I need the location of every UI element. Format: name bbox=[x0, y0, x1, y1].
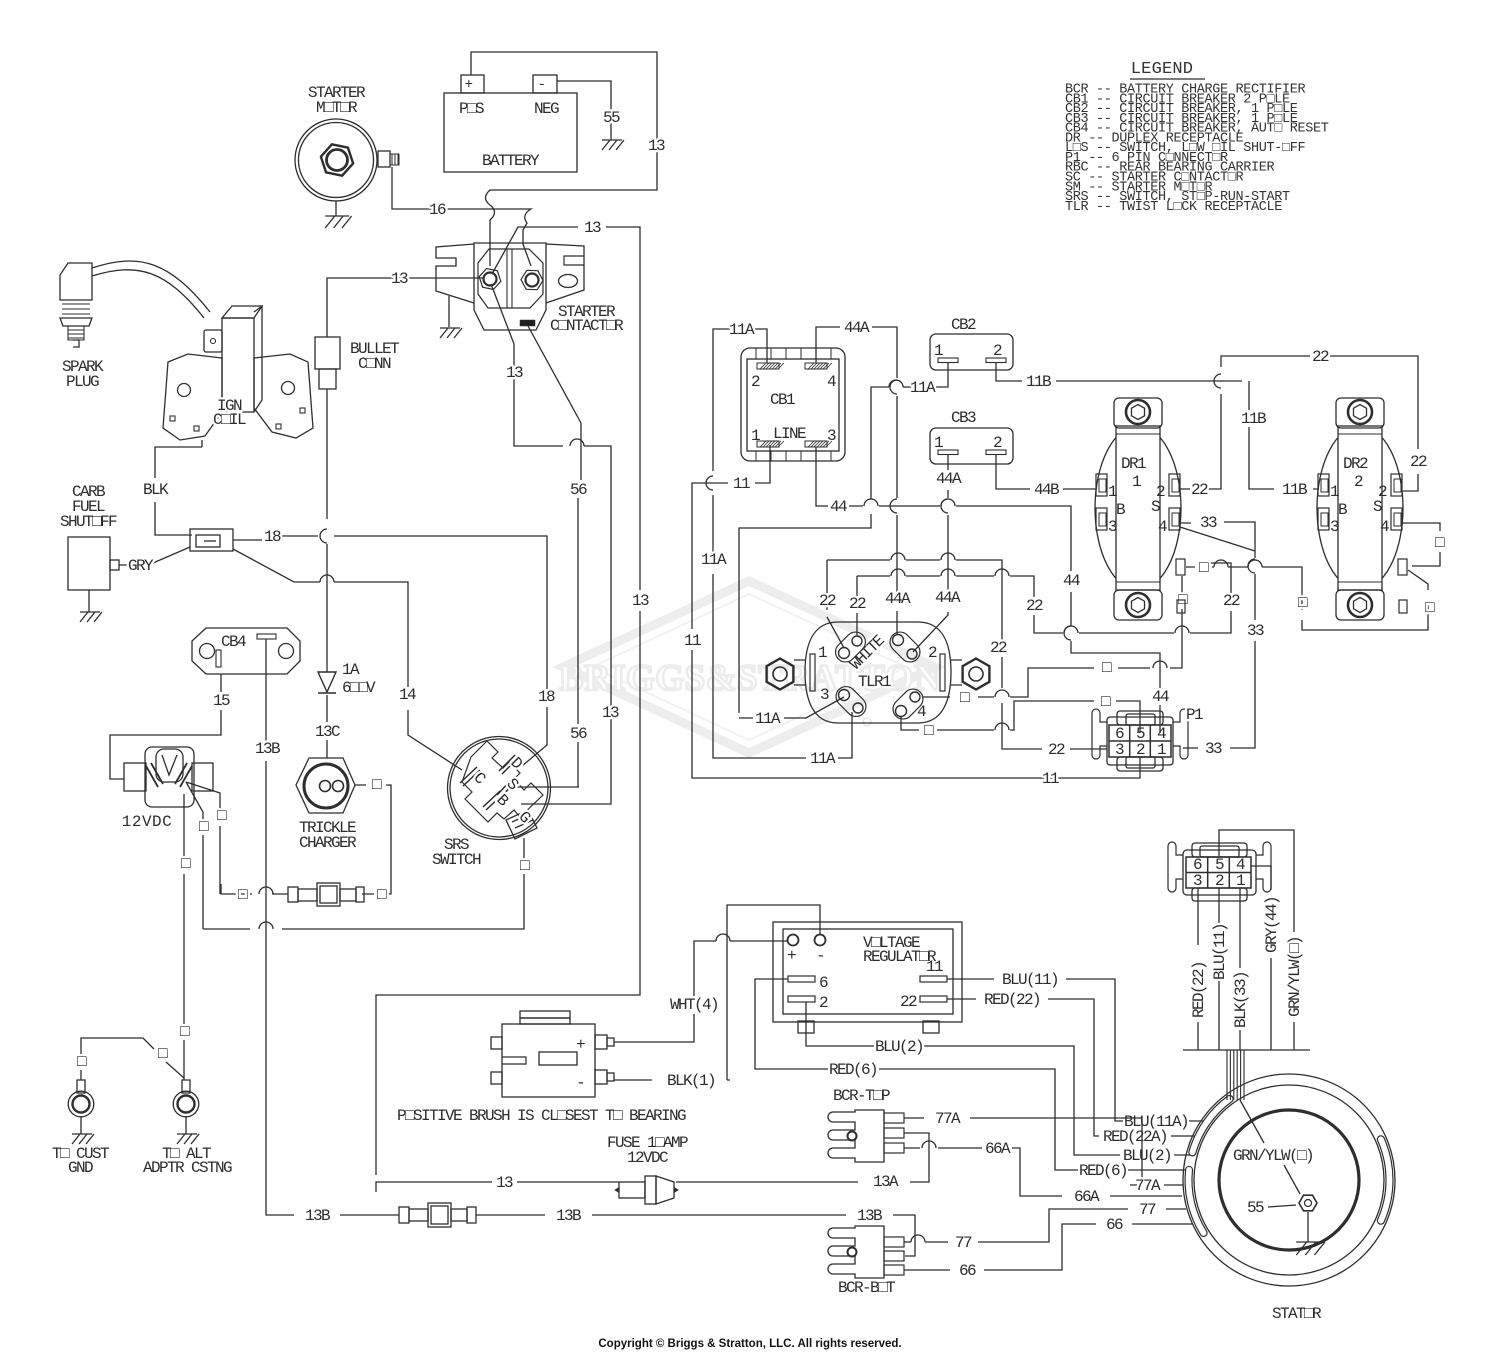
DR2 pin 4 bbox=[1391, 508, 1402, 530]
inline connector on 13B wire bbox=[399, 1203, 476, 1227]
DR1 pin 2 bbox=[1169, 474, 1180, 496]
svg-text:2: 2 bbox=[993, 434, 1002, 452]
svg-text:1: 1 bbox=[1330, 483, 1339, 501]
svg-text:LEGEND: LEGEND bbox=[1131, 60, 1193, 79]
voltage regulator + terminal bbox=[788, 935, 799, 946]
svg-text:4: 4 bbox=[1380, 518, 1389, 536]
svg-text:SWITCH: SWITCH bbox=[432, 851, 481, 869]
DR2 side terminal bbox=[1398, 559, 1407, 575]
svg-text:2: 2 bbox=[1215, 872, 1224, 890]
wire from battery POS to node 13 and contactor bbox=[471, 52, 657, 266]
svg-text:11A: 11A bbox=[910, 379, 936, 397]
DR2 lower side lug bbox=[1399, 600, 1407, 613]
wire 55 label to stator stud bbox=[1268, 1205, 1296, 1207]
svg-text:PLUG: PLUG bbox=[66, 373, 99, 391]
svg-text:C□NTACT□R: C□NTACT□R bbox=[550, 317, 624, 335]
svg-text:BLK: BLK bbox=[143, 481, 169, 499]
svg-text:11B: 11B bbox=[1026, 373, 1051, 391]
wire 11 from CB1 pin1 to P1 pin2 bbox=[692, 445, 1140, 778]
wire 0 from DR1 side terminal to DR2 bottom terminal bbox=[1186, 560, 1428, 630]
DR2 pin 2 bbox=[1391, 474, 1402, 496]
wire RED(6) from regulator pin6 to stator bbox=[755, 979, 1186, 1170]
svg-text:44A: 44A bbox=[935, 589, 961, 607]
svg-text:66A: 66A bbox=[1074, 1188, 1100, 1206]
wire 13 contactor down to SRS switch B terminal bbox=[491, 284, 611, 804]
12VDC accessory receptacle bbox=[122, 747, 213, 831]
contactor hex nut terminal left bbox=[479, 269, 501, 290]
ground at battery NEG bbox=[602, 140, 624, 150]
svg-text:22: 22 bbox=[1026, 597, 1043, 615]
stator 6-pin connector bbox=[1168, 842, 1271, 901]
svg-text:18: 18 bbox=[538, 688, 555, 706]
wire 22 to TLR pin1 small bbox=[856, 576, 858, 635]
wire BLU(11) from regulator pin11 to stator BLU(11A) bbox=[947, 979, 1203, 1121]
svg-text:+: + bbox=[787, 947, 796, 965]
svg-text:1: 1 bbox=[1157, 741, 1166, 759]
svg-text:66: 66 bbox=[1106, 1216, 1123, 1234]
wire GRN/YLW(0) stator connector pin5 bbox=[1219, 830, 1294, 1050]
DR1 pin 4 bbox=[1169, 508, 1180, 530]
wire 13B from CB4 down to bottom of page bbox=[266, 639, 915, 1256]
svg-text:BLK(33): BLK(33) bbox=[1232, 972, 1250, 1028]
wire 11A top link to CB1 pin2 bbox=[713, 329, 767, 363]
wire RED(22) from regulator pin22 to stator RED(22A) bbox=[947, 999, 1197, 1136]
CB1 terminal pad 2 bbox=[757, 363, 779, 369]
circuit breaker CB4 bbox=[192, 628, 300, 674]
bullet connector bbox=[315, 337, 340, 369]
wire 11B from CB2 pin2 to DR2 pin1 bbox=[996, 362, 1319, 489]
svg-text:56: 56 bbox=[570, 481, 587, 499]
svg-text:44A: 44A bbox=[844, 319, 870, 337]
svg-text:P1: P1 bbox=[1186, 706, 1203, 724]
wire 22 from DR1 pin2 up and over to DR2 pin2 bbox=[1180, 356, 1418, 491]
wire 56 from contactor bottom to SRS switch S terminal bbox=[517, 326, 581, 787]
svg-text:11A: 11A bbox=[729, 321, 755, 339]
svg-text:33: 33 bbox=[1200, 514, 1217, 532]
ground under TO ALT ring bbox=[185, 1117, 187, 1134]
svg-text:CHARGER: CHARGER bbox=[299, 834, 357, 852]
svg-text:TLR -- TWIST L□CK RECEPTACLE: TLR -- TWIST L□CK RECEPTACLE bbox=[1065, 200, 1282, 215]
svg-text:1A: 1A bbox=[342, 661, 360, 679]
svg-text:12VDC: 12VDC bbox=[627, 1149, 668, 1167]
svg-text:22: 22 bbox=[1410, 453, 1427, 471]
svg-text:12VDC: 12VDC bbox=[122, 813, 173, 831]
fuse 10 amp 12VDC bbox=[607, 1134, 688, 1204]
svg-text:DR1: DR1 bbox=[1121, 455, 1146, 473]
stator GRN/YLW(0) lead inside bbox=[1240, 1100, 1300, 1194]
SRS terminal B bbox=[483, 791, 503, 810]
TLR1 hex nut right bbox=[963, 659, 990, 690]
stator wire bundle from connector bbox=[1227, 1050, 1244, 1100]
svg-text:6: 6 bbox=[819, 974, 828, 992]
carb fuel shutoff solenoid bbox=[68, 537, 110, 590]
svg-text:CB4: CB4 bbox=[221, 633, 246, 651]
stator bus at top of bundle bbox=[1183, 1049, 1310, 1051]
diode 1A 600V bbox=[318, 672, 336, 693]
voltage regulator pin 2 bbox=[788, 996, 815, 1002]
ground under starter motor bbox=[335, 201, 337, 216]
svg-text:B: B bbox=[1116, 501, 1125, 519]
svg-text:13: 13 bbox=[602, 704, 619, 722]
wire 0 from trickle charger to fuse holder bbox=[355, 785, 391, 894]
wire 11A left rail to TLR pin3 bbox=[706, 346, 852, 758]
wire 44B from CB3 pin2 to DR1 pin1 bbox=[996, 455, 1096, 489]
wire 0 from fuse holder to 12VDC branch bbox=[221, 884, 288, 894]
svg-text:DR2: DR2 bbox=[1343, 455, 1368, 473]
watermark Briggs & Stratton logo bbox=[559, 581, 941, 753]
DR2 bottom mounting bolt bbox=[1348, 593, 1372, 617]
svg-text:11: 11 bbox=[1042, 770, 1059, 788]
SRS terminal D bbox=[499, 755, 518, 774]
wire 0 from TLR pin4 to DR1 bottom terminal bbox=[923, 576, 1182, 697]
wire 44 from CB1 pin3 to P1 pin4 bbox=[816, 447, 1160, 733]
svg-text:4: 4 bbox=[827, 373, 836, 391]
svg-text:GRN/YLW(□): GRN/YLW(□) bbox=[1233, 1147, 1313, 1165]
circuit breaker CB1 bbox=[741, 348, 845, 461]
SRS terminal G bbox=[506, 810, 537, 839]
svg-text:BLK(1): BLK(1) bbox=[667, 1072, 715, 1090]
ground at stator stud bbox=[1307, 1212, 1309, 1242]
svg-text:C□NN: C□NN bbox=[358, 355, 391, 373]
CB1 terminal pad 1 bbox=[757, 441, 779, 447]
svg-text:1: 1 bbox=[934, 434, 943, 452]
svg-text:6□□V: 6□□V bbox=[342, 679, 376, 697]
voltage regulator pin 22 bbox=[920, 996, 947, 1002]
wire 16 from starter motor to contactor bbox=[392, 167, 531, 266]
svg-text:11A: 11A bbox=[810, 750, 836, 768]
svg-text:1: 1 bbox=[934, 342, 943, 360]
svg-text:13: 13 bbox=[632, 592, 649, 610]
svg-text:4: 4 bbox=[917, 703, 926, 721]
svg-text:3: 3 bbox=[1108, 518, 1117, 536]
svg-text:22: 22 bbox=[1191, 481, 1208, 499]
wire 18 from inline connector to SRS switch D terminal bbox=[233, 536, 547, 766]
battery bbox=[444, 75, 577, 172]
svg-text:SHUT□FF: SHUT□FF bbox=[60, 513, 117, 531]
wire 33 from DR1 pin4 to P1 pin1 bbox=[1180, 522, 1255, 748]
wire 44A from CB1 pin4 to TLR pin2 bbox=[816, 327, 897, 634]
starter motor SM bbox=[295, 84, 399, 201]
wire 0 from TLR pin4 small to P1 pin5 bbox=[901, 701, 1140, 733]
svg-text:WHT(4): WHT(4) bbox=[670, 996, 718, 1014]
svg-text:B: B bbox=[1338, 501, 1347, 519]
svg-text:22: 22 bbox=[1223, 592, 1240, 610]
svg-text:13: 13 bbox=[496, 1174, 513, 1192]
svg-text:3: 3 bbox=[827, 427, 836, 445]
svg-text:2: 2 bbox=[928, 644, 937, 662]
svg-text:GRN/YLW(□): GRN/YLW(□) bbox=[1286, 937, 1304, 1017]
svg-text:13: 13 bbox=[391, 270, 408, 288]
wire BLK from ignition coil to inline connector bbox=[155, 447, 202, 535]
starter contactor SC bbox=[436, 243, 584, 330]
SRS switch body bbox=[448, 737, 551, 840]
stator inner winding ring bbox=[1219, 1110, 1359, 1250]
TLR1 slot 2 bbox=[886, 628, 924, 666]
ground under TO CUST GND ring bbox=[80, 1117, 82, 1134]
wire WHT(4) from brush + to voltage regulator + bbox=[614, 934, 788, 1042]
stator center hex stud bbox=[1299, 1195, 1317, 1211]
DR1 top mounting bolt bbox=[1126, 400, 1150, 424]
svg-text:-: - bbox=[816, 947, 824, 965]
wire BLU(11) stator connector pin2 bbox=[1218, 888, 1220, 1050]
svg-text:GRY(44): GRY(44) bbox=[1263, 897, 1281, 953]
svg-text:18: 18 bbox=[264, 528, 281, 546]
wire RED(22) stator connector pin3 bbox=[1197, 888, 1199, 1050]
svg-text:13: 13 bbox=[506, 364, 523, 382]
svg-text:11B: 11B bbox=[1282, 481, 1307, 499]
svg-text:GND: GND bbox=[68, 1159, 93, 1177]
wire 66A from BCR-TOP to stator bbox=[904, 1141, 1182, 1196]
DR2 pin 1 bbox=[1318, 474, 1329, 496]
svg-text:33: 33 bbox=[1247, 622, 1264, 640]
svg-text:44: 44 bbox=[1063, 572, 1080, 590]
svg-text:2: 2 bbox=[993, 342, 1002, 360]
spark plug bbox=[60, 263, 104, 391]
svg-text:22: 22 bbox=[1048, 741, 1065, 759]
svg-text:Copyright © Briggs & Stratton,: Copyright © Briggs & Stratton, LLC. All … bbox=[598, 1338, 901, 1350]
svg-text:P□SITIVE BRUSH IS CL□SEST T□ B: P□SITIVE BRUSH IS CL□SEST T□ BEARING bbox=[397, 1107, 686, 1125]
inline fuse holder on 0 wire bbox=[288, 883, 364, 906]
svg-text:BLU(2): BLU(2) bbox=[875, 1038, 923, 1056]
wire 0 from DR2 pin4 bbox=[1401, 523, 1440, 566]
svg-text:2: 2 bbox=[1136, 741, 1145, 759]
wire BLU(2) from regulator pin2 to stator bbox=[806, 1002, 1190, 1155]
P1 6-pin connector bbox=[1092, 706, 1203, 771]
wire 0 linking ring terminals bbox=[81, 1038, 184, 1080]
DR1 pin 1 bbox=[1096, 474, 1107, 496]
svg-text:15: 15 bbox=[213, 692, 230, 710]
inline connector at ignition circuit bbox=[190, 529, 233, 551]
TLR1 slot 4 bbox=[889, 685, 927, 723]
wire 44A from CB3 pin1 to TLR pin2 small contact bbox=[913, 455, 948, 652]
svg-text:CB1: CB1 bbox=[770, 391, 795, 409]
svg-text:-: - bbox=[538, 77, 545, 93]
svg-text:1: 1 bbox=[1108, 483, 1117, 501]
svg-text:S: S bbox=[1151, 498, 1160, 516]
svg-text:44B: 44B bbox=[1034, 481, 1059, 499]
svg-text:LINE: LINE bbox=[773, 425, 806, 443]
svg-text:13B: 13B bbox=[255, 740, 280, 758]
svg-text:RED(22A): RED(22A) bbox=[1103, 1128, 1167, 1146]
wires 0 from 12VDC receptacle bbox=[184, 782, 220, 1080]
svg-text:4: 4 bbox=[1158, 518, 1167, 536]
wire 13A joining BCR-TOP bbox=[676, 1133, 929, 1182]
svg-text:TLR1: TLR1 bbox=[858, 673, 891, 691]
TLR1 twist lock receptacle body bbox=[794, 622, 962, 723]
svg-text:13: 13 bbox=[584, 219, 601, 237]
ground at carb fuel shutoff bbox=[88, 590, 90, 612]
svg-text:13: 13 bbox=[648, 137, 665, 155]
svg-text:2: 2 bbox=[1354, 473, 1363, 491]
contactor hex nut terminal right bbox=[521, 270, 543, 289]
DR1 pin 3 bbox=[1096, 508, 1107, 530]
svg-text:22: 22 bbox=[900, 993, 917, 1011]
wire 55 battery NEG to ground bbox=[557, 81, 611, 140]
svg-text:BATTERY: BATTERY bbox=[482, 152, 540, 170]
svg-text:BLU(2): BLU(2) bbox=[1123, 1147, 1171, 1165]
voltage regulator - terminal bbox=[815, 935, 826, 946]
wire 13C from diode to trickle charger bbox=[326, 695, 328, 758]
CB1 terminal pad 3 bbox=[805, 441, 827, 447]
voltage regulator bbox=[773, 922, 962, 1033]
svg-text:55: 55 bbox=[1247, 1199, 1264, 1217]
battery charge rectifier BCR-TOP bbox=[828, 1087, 904, 1162]
wire 66 from BCR-BOT to stator bbox=[904, 1224, 1192, 1270]
svg-text:S: S bbox=[1373, 498, 1382, 516]
svg-text:RED(6): RED(6) bbox=[829, 1061, 877, 1079]
wire 0 bus to SRS switch G terminal bbox=[203, 838, 524, 929]
DR2 pin 3 bbox=[1318, 508, 1329, 530]
svg-text:CB3: CB3 bbox=[951, 409, 976, 427]
svg-text:22: 22 bbox=[1312, 348, 1329, 366]
wire 13 contactor right terminal to long right vertical bbox=[376, 227, 640, 1192]
svg-text:BCR-B□T: BCR-B□T bbox=[838, 1279, 895, 1297]
svg-text:C□IL: C□IL bbox=[213, 411, 246, 429]
svg-text:GRY: GRY bbox=[128, 557, 154, 575]
wire 22 bus upper from TLR to P1 pin3 bbox=[827, 553, 1107, 749]
svg-text:13B: 13B bbox=[305, 1207, 330, 1225]
svg-text:STAT□R: STAT□R bbox=[1272, 1305, 1322, 1323]
svg-text:16: 16 bbox=[429, 201, 446, 219]
svg-text:+: + bbox=[576, 1036, 585, 1054]
svg-text:NEG: NEG bbox=[534, 100, 559, 118]
svg-text:M□T□R: M□T□R bbox=[316, 99, 358, 117]
contactor small black terminal bbox=[520, 320, 535, 326]
svg-text:11A: 11A bbox=[701, 551, 727, 569]
brush assembly block bbox=[491, 1011, 614, 1097]
wire GRY(44) stator connector pin4 bbox=[1251, 866, 1271, 1050]
svg-text:2: 2 bbox=[819, 994, 828, 1012]
svg-text:-: - bbox=[576, 1074, 584, 1092]
spark plug cable to ignition coil bbox=[92, 261, 210, 312]
svg-text:3: 3 bbox=[820, 686, 829, 704]
svg-text:11: 11 bbox=[684, 632, 701, 650]
wire 13 from contactor to bullet connector bbox=[327, 278, 484, 337]
svg-text:RED(22): RED(22) bbox=[984, 991, 1040, 1009]
wire 22 to TLR pin1 bbox=[827, 560, 844, 648]
svg-text:56: 56 bbox=[570, 725, 587, 743]
svg-text:CB2: CB2 bbox=[951, 316, 976, 334]
svg-text:11A: 11A bbox=[755, 710, 781, 728]
svg-text:1: 1 bbox=[1132, 473, 1141, 491]
SRS terminal S bbox=[497, 778, 516, 798]
wire 77A from BCR-TOP to stator bbox=[904, 1118, 1183, 1185]
svg-text:BCR-T□P: BCR-T□P bbox=[833, 1087, 890, 1105]
duplex receptacle DR1 bbox=[1095, 398, 1181, 620]
svg-text:14: 14 bbox=[399, 686, 416, 704]
wire BLK(33) stator connector pin1 bbox=[1239, 888, 1241, 1050]
svg-text:13B: 13B bbox=[857, 1207, 882, 1225]
voltage regulator pin 11 bbox=[920, 976, 947, 982]
wire GRY from carb to inline connector bbox=[119, 547, 190, 565]
wire 77 from BCR-BOT to stator bbox=[904, 1209, 1186, 1242]
duplex receptacle DR2 bbox=[1317, 398, 1403, 620]
svg-text:RED(22): RED(22) bbox=[1190, 962, 1208, 1018]
svg-text:3: 3 bbox=[1330, 518, 1339, 536]
stator slot lower-left bbox=[1189, 1095, 1233, 1155]
DR1 bottom mounting bolt bbox=[1126, 593, 1150, 617]
wire 11A from CB2 pin1 to CB1 and TLR bbox=[739, 362, 948, 718]
svg-text:44A: 44A bbox=[936, 470, 962, 488]
circuit breaker CB2 bbox=[930, 316, 1013, 370]
svg-text:77A: 77A bbox=[935, 1110, 961, 1128]
circuit breaker CB3 bbox=[930, 409, 1013, 464]
svg-text:44: 44 bbox=[1152, 688, 1169, 706]
svg-text:11: 11 bbox=[733, 475, 750, 493]
TLR1 slot 1 bbox=[831, 628, 869, 666]
svg-text:66: 66 bbox=[959, 1262, 976, 1280]
svg-text:13B: 13B bbox=[556, 1207, 581, 1225]
legend title bbox=[1065, 60, 1329, 215]
svg-text:1: 1 bbox=[818, 644, 827, 662]
svg-text:22: 22 bbox=[990, 639, 1007, 657]
svg-text:1: 1 bbox=[1236, 872, 1245, 890]
svg-text:44: 44 bbox=[830, 498, 847, 516]
svg-text:33: 33 bbox=[1205, 740, 1222, 758]
svg-text:66A: 66A bbox=[985, 1140, 1011, 1158]
svg-text:44A: 44A bbox=[885, 590, 911, 608]
wire from bullet connector down through diode bbox=[320, 389, 327, 672]
svg-text:2: 2 bbox=[751, 373, 760, 391]
ignition coil bbox=[163, 306, 313, 440]
svg-text:77: 77 bbox=[1139, 1201, 1156, 1219]
battery charge rectifier BCR-BOT bbox=[828, 1226, 904, 1297]
svg-text:77: 77 bbox=[955, 1234, 972, 1252]
svg-text:P□S: P□S bbox=[459, 100, 484, 118]
trickle charger receptacle bbox=[296, 758, 357, 852]
svg-text:ADPTR CSTNG: ADPTR CSTNG bbox=[143, 1159, 232, 1177]
svg-text:22: 22 bbox=[819, 592, 836, 610]
stator slot right bbox=[1377, 1136, 1393, 1224]
wire 15 from CB4 to 12VDC receptacle bbox=[110, 674, 221, 779]
svg-text:+: + bbox=[465, 77, 473, 93]
wire BLK(1) from brush - to voltage regulator - bbox=[614, 905, 820, 1080]
voltage regulator pin 6 bbox=[788, 976, 815, 982]
CB1 terminal pad 4 bbox=[805, 363, 827, 369]
svg-text:11: 11 bbox=[926, 958, 943, 976]
svg-text:3: 3 bbox=[1193, 872, 1202, 890]
ground at contactor left wing bbox=[448, 296, 450, 327]
svg-text:RED(6): RED(6) bbox=[1079, 1162, 1127, 1180]
svg-text:13C: 13C bbox=[315, 723, 340, 741]
svg-text:22: 22 bbox=[849, 595, 866, 613]
svg-text:55: 55 bbox=[603, 109, 620, 127]
DR1 side terminal bbox=[1176, 559, 1185, 575]
svg-text:BLU(11): BLU(11) bbox=[1211, 924, 1229, 980]
svg-text:77A: 77A bbox=[1135, 1177, 1161, 1195]
wire 22 bus lower from TLR small to DR1 area bbox=[857, 563, 1231, 633]
stator slot upper-left bbox=[1185, 1166, 1207, 1236]
svg-text:13A: 13A bbox=[873, 1173, 899, 1191]
DR2 top mounting bolt bbox=[1348, 400, 1372, 424]
svg-text:1: 1 bbox=[751, 427, 760, 445]
stator outer rings bbox=[1183, 1074, 1395, 1286]
DR1 lower side lug bbox=[1177, 600, 1185, 613]
wire 14 from inline connector to SRS switch C terminal bbox=[233, 549, 462, 770]
ring terminal TO CUST GND bbox=[52, 1080, 109, 1177]
svg-text:11B: 11B bbox=[1241, 410, 1266, 428]
TLR1 hex nut left bbox=[767, 659, 794, 690]
SRS terminal C bbox=[460, 767, 480, 786]
svg-text:3: 3 bbox=[1115, 741, 1124, 759]
TLR1 slot 3 bbox=[832, 682, 870, 720]
ring terminal TO ALT ADPTR CSTNG bbox=[143, 1080, 232, 1177]
svg-text:BLU(11): BLU(11) bbox=[1002, 971, 1058, 989]
